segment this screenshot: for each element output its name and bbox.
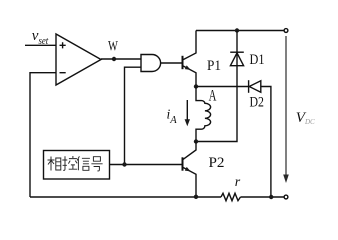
- wire AND gate lower input from phase box: [125, 67, 142, 164]
- node A: [194, 84, 198, 88]
- inductor coil A: [196, 87, 211, 142]
- svg-text:r: r: [235, 175, 241, 190]
- node P2 emitter: [194, 195, 198, 199]
- AND gate: [141, 55, 161, 72]
- glyph 信: [77, 156, 90, 170]
- wire top rail: [196, 30, 284, 32]
- wire inverting-input feedback (left rail): [30, 73, 56, 197]
- wire phase box to P2 base: [110, 164, 182, 166]
- wire resistor to terminal: [241, 196, 284, 198]
- svg-text:A: A: [209, 87, 217, 104]
- current arrow i_A: [185, 100, 190, 126]
- transistor P2: [183, 142, 197, 197]
- svg-text:vset: vset: [32, 28, 49, 47]
- wire AND output to P1 base: [161, 62, 182, 64]
- op-amp minus sign: [60, 72, 66, 74]
- diode D1: [230, 52, 244, 65]
- diode D2: [249, 80, 261, 93]
- svg-text:P2: P2: [209, 155, 225, 171]
- wire W (op-amp output to AND gate): [101, 58, 141, 60]
- glyph 控: [62, 156, 77, 170]
- op-amp U1: [56, 34, 101, 85]
- node coil bottom / P2 collector: [194, 139, 198, 143]
- terminal - (bottom right): [284, 195, 288, 199]
- phase control box: [44, 151, 110, 180]
- glyph 号: [91, 157, 102, 171]
- wire node A to D2: [196, 86, 249, 88]
- node W: [112, 57, 116, 61]
- node phase wire / AND input: [122, 162, 126, 166]
- glyph 相: [48, 157, 61, 171]
- svg-text:iA: iA: [167, 106, 178, 126]
- svg-text:D2: D2: [250, 94, 265, 110]
- wire bottom rail: [30, 196, 221, 198]
- voltage arrow V_DC: [283, 36, 289, 183]
- svg-text:P1: P1: [207, 58, 221, 74]
- op-amp plus sign: [60, 42, 66, 48]
- transistor P1: [183, 31, 197, 87]
- node D2 return: [269, 195, 273, 199]
- wire v_set input: [25, 44, 56, 46]
- svg-text:W: W: [108, 39, 118, 55]
- svg-text:VDC: VDC: [296, 110, 315, 126]
- wire D1 branch (top rail to coil bottom): [196, 31, 237, 142]
- svg-text:D1: D1: [250, 52, 265, 68]
- label 相控信号 (phase control signal): [48, 156, 103, 171]
- resistor r: [221, 193, 241, 200]
- node top rail / D1: [235, 28, 239, 32]
- terminal + (top right): [284, 29, 288, 33]
- wire D2 anode down to bottom rail: [261, 87, 271, 197]
